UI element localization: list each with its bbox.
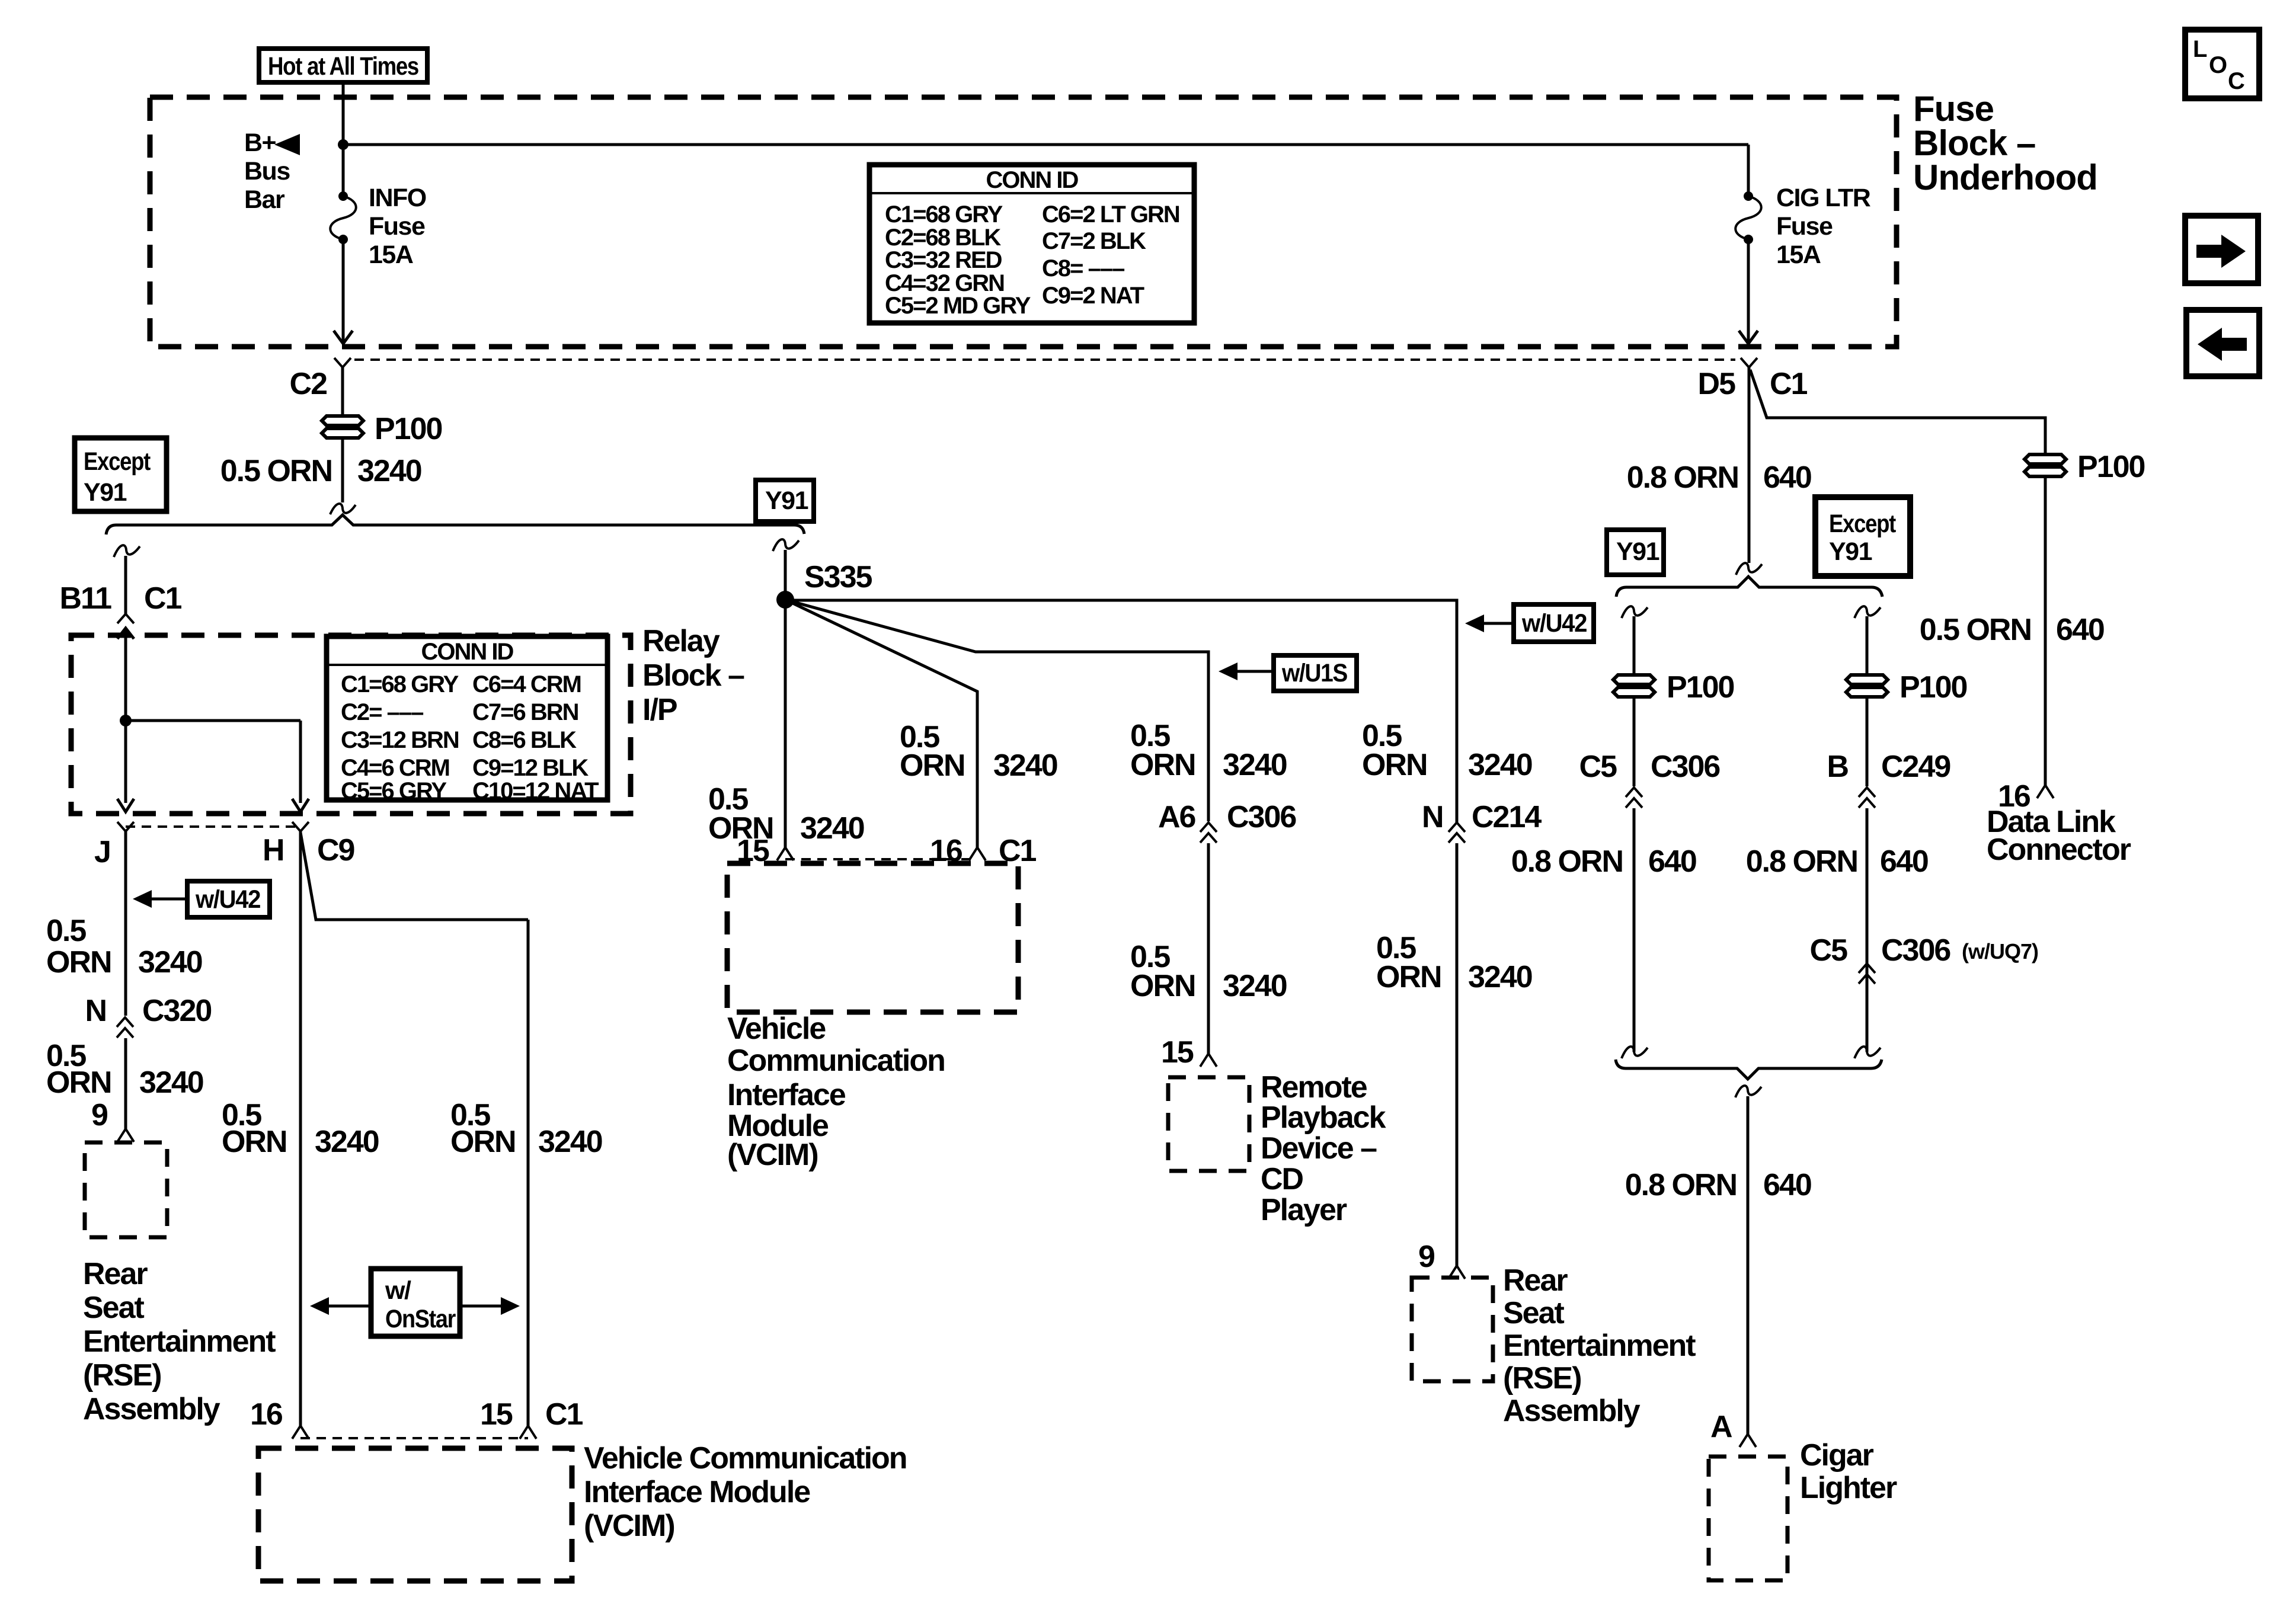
label: Data Link Connector xyxy=(1987,805,2131,867)
svg-text:3240: 3240 xyxy=(800,811,864,846)
svg-text:3240: 3240 xyxy=(357,454,421,488)
svg-text:Y91: Y91 xyxy=(84,478,127,507)
connector: wire end VCIM1 pin 15 xyxy=(777,847,794,860)
label: C306 (w/UQ7) xyxy=(1881,933,2038,968)
svg-text:15: 15 xyxy=(480,1397,513,1432)
svg-text:3240: 3240 xyxy=(1223,748,1287,782)
component box: Cigar Lighter (dashed) xyxy=(1709,1457,1787,1580)
svg-text:L: L xyxy=(2193,36,2207,62)
svg-text:ORN: ORN xyxy=(222,1125,287,1159)
connector H/C9 (Y symbol) xyxy=(292,822,309,831)
label: 0.5 ORN 3240 (wire to VCIM 15) xyxy=(708,782,864,846)
svg-text:Rear: Rear xyxy=(83,1257,148,1291)
svg-text:ORN: ORN xyxy=(46,945,111,980)
connector: wire end VCIM2 pin 15 xyxy=(520,1426,536,1439)
connector: wire end Cigar Lighter pin A xyxy=(1739,1434,1756,1447)
svg-text:Fuse: Fuse xyxy=(1913,89,1994,129)
svg-text:Device –: Device – xyxy=(1261,1131,1377,1166)
label box: w/U1S with arrow xyxy=(1219,655,1357,691)
svg-text:ORN: ORN xyxy=(1130,969,1195,1003)
svg-text:C306: C306 xyxy=(1651,750,1720,784)
fuse F1: INFO Fuse 15A xyxy=(330,191,356,244)
connector C2 (Y symbol) xyxy=(334,358,351,415)
label: INFO Fuse 15A xyxy=(369,184,426,269)
connector N/C214 (double chevron) xyxy=(1448,822,1465,843)
wire tilde above brace3 left end xyxy=(1622,1046,1648,1058)
label: B+ Bus Bar xyxy=(244,129,290,214)
svg-text:0.5: 0.5 xyxy=(46,914,86,948)
wire: P100 down to brace xyxy=(341,440,344,502)
wire: thin dashed connector boundary C2/D5 xyxy=(354,359,1735,361)
svg-text:Relay: Relay xyxy=(642,624,720,658)
svg-text:C5: C5 xyxy=(1810,933,1848,968)
svg-text:Cigar: Cigar xyxy=(1800,1438,1874,1473)
brace: splice bus left (B11 to Y91) xyxy=(106,515,804,534)
svg-text:J: J xyxy=(94,835,110,869)
svg-text:ORN: ORN xyxy=(450,1125,516,1159)
svg-text:C9=2 NAT: C9=2 NAT xyxy=(1042,283,1144,309)
svg-text:Communication: Communication xyxy=(727,1044,945,1078)
svg-text:N: N xyxy=(1422,800,1443,834)
svg-text:9: 9 xyxy=(1418,1240,1434,1274)
svg-text:Fuse: Fuse xyxy=(369,212,425,241)
fuse F2: CIG LTR Fuse 15A xyxy=(1735,191,1761,244)
svg-text:Seat: Seat xyxy=(83,1291,145,1325)
svg-text:Vehicle Communication: Vehicle Communication xyxy=(584,1441,907,1475)
connector: wire end Data Link pin 16 xyxy=(2037,785,2054,798)
svg-text:ORN: ORN xyxy=(1362,748,1427,782)
wire: D5 diagonal branch to data link xyxy=(1750,370,2045,785)
splice pass-through P100 (data link wire) xyxy=(2025,454,2066,476)
wire: B+ bus bar horizontal xyxy=(343,143,1748,146)
svg-text:C7=6 BRN: C7=6 BRN xyxy=(472,699,578,725)
label: 0.8 ORN 640 (right wire) xyxy=(1746,844,1928,879)
svg-text:C8= –––: C8= ––– xyxy=(1042,255,1125,281)
connector: wire end VCIM1 pin 16 xyxy=(969,847,986,860)
svg-text:B11: B11 xyxy=(59,581,111,616)
wire: S335 to VCIM pin 15 xyxy=(784,600,787,847)
svg-text:O: O xyxy=(2209,52,2227,78)
svg-text:640: 640 xyxy=(1763,1168,1811,1202)
wire: INFO fuse down to fuse block edge xyxy=(342,239,345,343)
svg-text:Assembly: Assembly xyxy=(83,1392,220,1426)
svg-text:w/: w/ xyxy=(385,1276,411,1305)
svg-text:C3=12 BRN: C3=12 BRN xyxy=(341,727,459,753)
label: Vehicle Communication Interface Module (VCIM) upper xyxy=(727,1012,945,1172)
svg-text:C10=12 NAT: C10=12 NAT xyxy=(472,778,599,804)
svg-text:0.5 ORN: 0.5 ORN xyxy=(220,454,332,488)
wire tilde below brace3 center xyxy=(1735,1086,1761,1097)
svg-text:C1: C1 xyxy=(545,1397,583,1432)
svg-text:Remote: Remote xyxy=(1261,1070,1367,1105)
wire tilde below brace2 right end xyxy=(1854,606,1881,618)
svg-text:P100: P100 xyxy=(375,412,442,446)
svg-text:Block –: Block – xyxy=(1913,123,2035,163)
svg-text:0.8 ORN: 0.8 ORN xyxy=(1511,844,1623,879)
svg-text:640: 640 xyxy=(2056,613,2104,647)
label box: w/ OnStar with arrows xyxy=(310,1269,520,1336)
label box: Except Y91 (left) xyxy=(75,438,167,511)
svg-text:S335: S335 xyxy=(804,560,872,594)
wire: S335 horizontal to N/C214 drop xyxy=(785,600,1457,822)
svg-text:Fuse: Fuse xyxy=(1776,212,1833,241)
svg-text:Except: Except xyxy=(1829,510,1896,538)
svg-text:C2: C2 xyxy=(290,367,327,401)
wire: down to splice S335 xyxy=(784,550,787,600)
brace: splice bus right (C5/B wires) xyxy=(1616,577,1882,597)
wire tilde below brace2 left end xyxy=(1622,606,1648,618)
svg-text:Y91: Y91 xyxy=(765,486,808,515)
wire: branch down to VCIM pin 15 xyxy=(527,920,530,1426)
svg-text:3240: 3240 xyxy=(1223,969,1287,1003)
svg-text:15A: 15A xyxy=(1776,241,1821,269)
svg-text:A: A xyxy=(1710,1410,1732,1444)
arrow to B+ (filled left arrow) xyxy=(274,134,300,155)
arrow: open arrowhead exiting fuse block (right) xyxy=(1739,331,1758,344)
wire: brace3 to cigar lighter pin A xyxy=(1747,1096,1750,1434)
svg-text:3240: 3240 xyxy=(538,1125,602,1159)
svg-text:N: N xyxy=(85,994,106,1028)
label: Vehicle Communication Interface Module (VCIM) lower xyxy=(584,1441,907,1543)
wire: H branch diagonal xyxy=(300,833,528,920)
svg-text:9: 9 xyxy=(91,1098,107,1132)
component box: Remote Playback Device (dashed) xyxy=(1168,1077,1249,1171)
svg-text:CD: CD xyxy=(1261,1162,1303,1196)
wire: CIG LTR fuse drop xyxy=(1747,145,1750,196)
component box: Rear Seat Entertainment assembly (right, dashed) xyxy=(1412,1278,1493,1381)
svg-text:Underhood: Underhood xyxy=(1913,158,2097,197)
wire: C306 down to brace3 xyxy=(1633,808,1636,1052)
svg-text:Playback: Playback xyxy=(1261,1100,1386,1135)
svg-text:C: C xyxy=(2228,68,2244,94)
label box: Y91 (right) xyxy=(1607,530,1664,575)
label: CIG LTR Fuse 15A xyxy=(1776,184,1871,269)
connector D5/C1 (Y symbol) xyxy=(1741,358,1757,563)
svg-text:C5=6 GRY: C5=6 GRY xyxy=(341,778,447,804)
label: Cigar Lighter xyxy=(1800,1438,1897,1505)
label: 0.8 ORN 640 (D5 wire) xyxy=(1627,460,1811,495)
svg-text:0.8 ORN: 0.8 ORN xyxy=(1625,1168,1737,1202)
svg-text:(RSE): (RSE) xyxy=(83,1358,161,1393)
node: B+ junction dot xyxy=(338,139,348,150)
svg-text:C6=4 CRM: C6=4 CRM xyxy=(472,671,581,697)
wire tilde above brace3 right end xyxy=(1854,1046,1881,1058)
svg-text:C9=12 BLK: C9=12 BLK xyxy=(472,755,589,781)
svg-text:w/U1S: w/U1S xyxy=(1281,659,1347,687)
label: Rear Seat Entertainment (RSE) Assembly (left) xyxy=(83,1257,276,1426)
svg-text:C5=2 MD GRY: C5=2 MD GRY xyxy=(885,293,1031,319)
wire: C320 to RSE pin 9 xyxy=(124,1038,127,1129)
label: 0.5 ORN 3240 (N wire lower) xyxy=(1376,931,1532,994)
svg-text:Interface Module: Interface Module xyxy=(584,1475,810,1509)
label: Remote Playback Device - CD Player xyxy=(1261,1070,1386,1227)
label: Fuse Block - Underhood xyxy=(1913,89,2097,197)
splice pass-through P100 (left Y91 wire) xyxy=(1613,675,1655,697)
svg-text:3240: 3240 xyxy=(1468,748,1532,782)
svg-text:16: 16 xyxy=(250,1397,283,1432)
svg-text:D5: D5 xyxy=(1698,367,1736,401)
svg-text:C4=6 CRM: C4=6 CRM xyxy=(341,755,449,781)
svg-text:Seat: Seat xyxy=(1503,1296,1565,1330)
svg-text:Entertainment: Entertainment xyxy=(83,1324,276,1359)
svg-text:(RSE): (RSE) xyxy=(1503,1361,1581,1395)
wire: brace2 left end down through P100 xyxy=(1633,616,1636,786)
label: 0.5 ORN 3240 (wire to pin 15) xyxy=(450,1098,602,1159)
svg-text:C3=32 RED: C3=32 RED xyxy=(885,247,1002,273)
arrow: open arrowhead exiting relay block (J) xyxy=(117,799,134,812)
svg-text:P100: P100 xyxy=(1900,670,1967,705)
svg-text:CONN ID: CONN ID xyxy=(986,167,1079,193)
label box: Except Y91 (right) xyxy=(1815,497,1910,576)
legend box: arrow right xyxy=(2185,216,2258,283)
svg-text:0.5 ORN: 0.5 ORN xyxy=(1920,613,2031,647)
svg-text:640: 640 xyxy=(1648,844,1696,879)
svg-text:Player: Player xyxy=(1261,1193,1347,1227)
svg-text:P100: P100 xyxy=(1667,670,1734,705)
label: 0.5 ORN 3240 (J wire upper) xyxy=(46,914,202,980)
svg-text:C306: C306 xyxy=(1881,933,1950,968)
svg-text:OnStar: OnStar xyxy=(385,1305,456,1333)
label box: w/U42 (right) with arrow xyxy=(1465,604,1594,642)
splice S335 (junction dot) xyxy=(776,591,794,609)
wire: relay block internal horizontal xyxy=(126,719,300,722)
svg-text:C1: C1 xyxy=(1770,367,1808,401)
label: Rear Seat Entertainment (RSE) Assembly (right) xyxy=(1503,1263,1696,1428)
label: 0.5 ORN 3240 (A6 wire upper) xyxy=(1130,719,1287,782)
splice pass-through P100 (right Y91 wire) xyxy=(1846,675,1888,697)
label: 0.8 ORN 640 (left wire) xyxy=(1511,844,1696,879)
svg-text:H: H xyxy=(263,833,284,868)
svg-text:Bus: Bus xyxy=(244,157,290,185)
brace: merge bus to cigar lighter xyxy=(1616,1060,1882,1079)
svg-text:C249: C249 xyxy=(1881,750,1950,784)
label: 0.5 ORN 3240 (A6 wire lower) xyxy=(1130,940,1287,1003)
wire: brace2 right end down through P100 xyxy=(1866,616,1869,786)
wire: C306 down to Remote Playback pin 15 xyxy=(1207,843,1210,1054)
svg-text:Lighter: Lighter xyxy=(1800,1471,1897,1505)
svg-text:C2= –––: C2= ––– xyxy=(341,699,424,725)
component box: VCIM (lower, dashed) xyxy=(258,1448,572,1581)
node: relay block junction dot xyxy=(120,715,132,726)
LOC legend box xyxy=(2185,30,2259,98)
wire: C249 down through second C306 to brace3 xyxy=(1866,808,1869,1052)
svg-text:ORN: ORN xyxy=(46,1065,111,1100)
wire: thin dashed boundary at VCIM1 xyxy=(785,858,977,860)
wire: S335 diagonal to A6/C306 xyxy=(785,600,1208,821)
legend box: arrow left xyxy=(2186,310,2259,376)
label: 0.5 ORN 3240 (C2 wire) xyxy=(220,454,421,488)
svg-text:Y91: Y91 xyxy=(1829,537,1872,566)
wire: CIG fuse down to block edge xyxy=(1747,239,1750,343)
svg-text:0.8 ORN: 0.8 ORN xyxy=(1627,460,1738,495)
connector C5/C306 second (double chevron) xyxy=(1859,964,1875,984)
label: 0.5 ORN 3240 (wire to pin 16) xyxy=(222,1098,379,1159)
svg-text:C1=68 GRY: C1=68 GRY xyxy=(885,201,1003,228)
component box: Fuse Block - Underhood (dashed) xyxy=(150,97,1897,347)
svg-text:ORN: ORN xyxy=(1130,748,1195,782)
svg-text:I/P: I/P xyxy=(642,693,677,727)
arrow: pin entering relay block (open up) xyxy=(117,628,134,639)
svg-text:C7=2 BLK: C7=2 BLK xyxy=(1042,228,1146,254)
svg-text:C9: C9 xyxy=(317,833,354,868)
svg-text:B+: B+ xyxy=(244,129,276,157)
wire tilde above brace2 center xyxy=(1736,563,1762,575)
svg-text:Interface: Interface xyxy=(727,1078,846,1112)
wire: thin dashed boundary at VCIM2 xyxy=(300,1437,528,1439)
svg-text:C1=68 GRY: C1=68 GRY xyxy=(341,671,459,697)
svg-text:C6=2 LT GRN: C6=2 LT GRN xyxy=(1042,201,1179,228)
svg-text:15: 15 xyxy=(1161,1035,1194,1070)
arrow: open arrowhead exiting relay block (H) xyxy=(292,799,309,812)
wire: relay block internal vertical xyxy=(124,628,127,803)
svg-text:B: B xyxy=(1827,750,1848,784)
svg-text:C320: C320 xyxy=(142,994,211,1028)
svg-text:Hot at All Times: Hot at All Times xyxy=(268,52,418,81)
svg-text:3240: 3240 xyxy=(139,1065,203,1100)
label: 0.5 ORN 3240 (wire to VCIM 16) xyxy=(900,720,1057,783)
svg-text:640: 640 xyxy=(1763,460,1811,495)
svg-text:ORN: ORN xyxy=(1376,960,1441,994)
svg-text:w/U42: w/U42 xyxy=(195,885,260,914)
connector B/C249 (double chevron) xyxy=(1859,788,1875,808)
svg-text:C5: C5 xyxy=(1579,750,1617,784)
svg-text:Entertainment: Entertainment xyxy=(1503,1329,1696,1363)
svg-text:A6: A6 xyxy=(1158,800,1196,834)
wire tilde above brace (C2 wire) xyxy=(330,504,356,514)
wire tilde below brace right end xyxy=(773,539,799,551)
wire: from Hot at All Times down to fuse INFO xyxy=(342,82,345,196)
wire tilde below brace left end xyxy=(114,545,140,557)
wire: C214 down to RSE pin 9 xyxy=(1456,843,1459,1266)
connector: wire end VCIM2 pin 16 xyxy=(292,1426,309,1439)
connector: wire end at RSE pin 9 xyxy=(117,1129,134,1142)
svg-text:CIG LTR: CIG LTR xyxy=(1776,184,1871,212)
wire: H/C9 vertical to VCIM pin 16 xyxy=(299,831,302,1426)
connector: wire end Remote Playback pin 15 xyxy=(1200,1054,1217,1067)
svg-text:Vehicle: Vehicle xyxy=(727,1012,826,1046)
svg-text:w/U42: w/U42 xyxy=(1521,609,1587,638)
svg-text:CONN ID: CONN ID xyxy=(421,639,514,665)
svg-text:Bar: Bar xyxy=(244,185,285,214)
svg-text:Y91: Y91 xyxy=(1616,537,1659,566)
svg-text:Connector: Connector xyxy=(1987,833,2131,867)
connector C5/C306 (double chevron) xyxy=(1626,788,1642,808)
connector J (Y symbol) xyxy=(117,822,134,1016)
label: 0.8 ORN 640 (cigar wire) xyxy=(1625,1168,1811,1202)
svg-text:3240: 3240 xyxy=(138,945,202,980)
connector B11/C1 (Y down) xyxy=(117,614,134,623)
label box: Hot at All Times xyxy=(259,49,427,82)
svg-text:3240: 3240 xyxy=(1468,960,1532,994)
svg-text:15A: 15A xyxy=(369,241,413,269)
label: Relay Block - I/P xyxy=(642,624,744,727)
component box: Rear Seat Entertainment assembly (left, dashed) xyxy=(85,1142,167,1237)
svg-text:640: 640 xyxy=(1880,844,1928,879)
wire: brace to B11 connector xyxy=(124,556,127,614)
connector N/C320 (double chevron) xyxy=(117,1017,133,1038)
svg-text:INFO: INFO xyxy=(369,184,426,212)
connector: wire end RSE2 pin 9 xyxy=(1448,1266,1465,1279)
svg-text:Block –: Block – xyxy=(642,658,744,693)
table: CONN ID (fuse block) xyxy=(869,165,1194,323)
svg-text:Assembly: Assembly xyxy=(1503,1394,1641,1428)
svg-text:(w/UQ7): (w/UQ7) xyxy=(1962,939,2038,964)
svg-text:(VCIM): (VCIM) xyxy=(584,1509,674,1543)
arrow: open arrowhead exiting fuse block (left) xyxy=(334,331,353,344)
svg-text:(VCIM): (VCIM) xyxy=(727,1138,818,1172)
label box: Y91 (left) xyxy=(756,480,814,521)
svg-text:P100: P100 xyxy=(2077,450,2145,484)
svg-text:C214: C214 xyxy=(1472,800,1542,834)
label: 0.5 ORN 3240 (J wire lower) xyxy=(46,1039,203,1100)
svg-text:3240: 3240 xyxy=(315,1125,379,1159)
svg-text:C306: C306 xyxy=(1227,800,1296,834)
svg-text:Except: Except xyxy=(84,447,151,476)
connector A6/C306 (double chevron) xyxy=(1200,822,1217,843)
component box: VCIM (upper, dashed) xyxy=(727,863,1018,1012)
svg-text:0.8 ORN: 0.8 ORN xyxy=(1746,844,1857,879)
wire: thin dashed connector boundary J/H xyxy=(126,825,300,828)
label box: w/U42 (left) with arrow xyxy=(133,881,270,917)
label: 0.5 ORN 640 (data link wire) xyxy=(1920,613,2104,647)
label: 0.5 ORN 3240 (N wire upper) xyxy=(1362,719,1532,782)
wire: S335 diagonal to VCIM pin 16 xyxy=(785,600,977,847)
svg-text:ORN: ORN xyxy=(900,748,965,783)
svg-text:Rear: Rear xyxy=(1503,1263,1568,1298)
component box: Relay Block - I/P (dashed) xyxy=(71,635,631,814)
svg-text:C1: C1 xyxy=(144,581,182,616)
svg-text:3240: 3240 xyxy=(993,748,1057,783)
table: CONN ID (relay block) xyxy=(327,636,607,804)
splice pass-through P100 (top) xyxy=(322,416,363,438)
wire: relay block internal right vertical xyxy=(299,721,302,803)
svg-text:C8=6 BLK: C8=6 BLK xyxy=(472,727,577,753)
